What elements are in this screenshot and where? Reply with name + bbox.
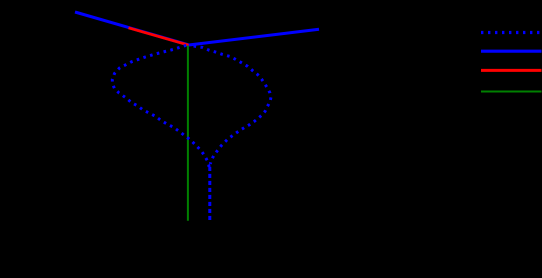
legend sample: red solid — [481, 69, 542, 72]
legend sample: blue dotted — [481, 31, 541, 34]
legend sample: blue solid — [481, 50, 542, 53]
blue dotted curve left branch (teardrop left side down to vertical channel) — [112, 45, 209, 172]
blue solid line right (rising from vertex) — [189, 29, 319, 45]
legend sample: green solid — [481, 91, 542, 93]
red solid segment (overlaying lower part of left tangent) — [129, 28, 190, 46]
green vertical line (axis through vertex) — [187, 46, 189, 221]
blue dotted curve right branch (teardrop right side down to vertical channel) — [189, 45, 271, 164]
blue dotted curve bottom channel (overlapping branches, vertical spike) — [208, 167, 211, 220]
blue solid line left (tangent line descending to vertex) — [75, 12, 189, 45]
